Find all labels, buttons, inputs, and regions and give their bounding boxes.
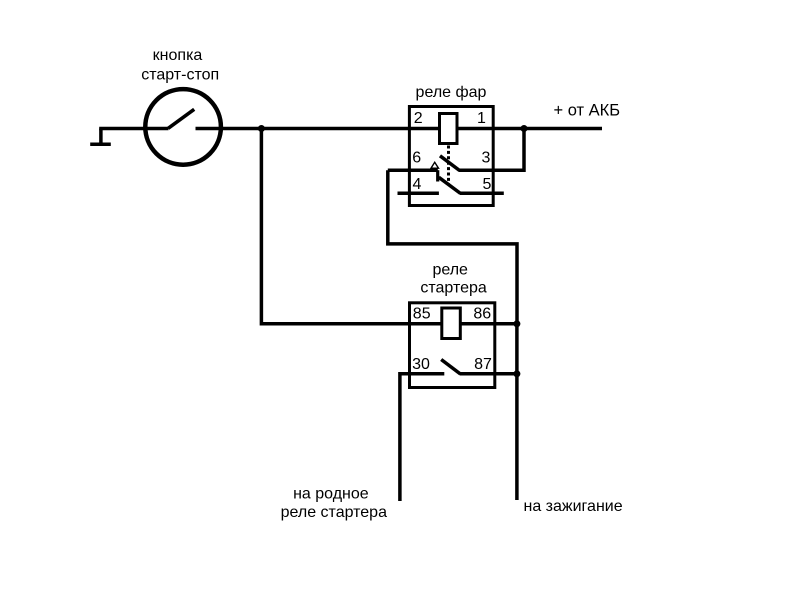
label: кнопка старт-стоп — [141, 47, 219, 83]
wire: pin87 to bus — [460, 372, 517, 376]
relay K2 coil — [442, 308, 461, 339]
node A: junction below button — [258, 125, 265, 132]
wire: pin5 stub — [460, 192, 504, 196]
svg-text:старт-стоп: старт-стоп — [141, 66, 219, 83]
wire: pin6 left lead — [388, 168, 438, 172]
svg-text:кнопка: кнопка — [153, 47, 203, 64]
wire: pin6 loop down to starter pin86 junction — [388, 170, 517, 324]
svg-text:87: 87 — [474, 356, 492, 373]
svg-text:стартера: стартера — [420, 280, 487, 297]
svg-text:реле фар: реле фар — [416, 84, 487, 101]
push-button S1 (кнопка старт-стоп) — [145, 89, 221, 165]
relay K1 (реле фар) body — [409, 107, 493, 206]
relay K1 actuator dashed link — [447, 146, 450, 185]
wire: button right contact to relay K1 pin2 / coil / +AKB — [196, 127, 603, 131]
svg-text:реле стартера: реле стартера — [281, 504, 387, 521]
wire: vertical bus pin86 to pin87 to ignition — [515, 324, 519, 500]
svg-text:85: 85 — [413, 306, 431, 323]
ground — [90, 129, 111, 145]
svg-text:на зажигание: на зажигание — [524, 498, 623, 515]
node D: junction pin87 with vertical bus — [513, 370, 520, 377]
wire: pin30 lead down to stock starter relay — [400, 374, 444, 501]
svg-text:86: 86 — [473, 306, 491, 323]
svg-text:1: 1 — [477, 110, 486, 127]
svg-text:+ от АКБ: + от АКБ — [554, 101, 621, 119]
node B: junction wire to +AKB above pin1 — [521, 125, 528, 132]
relay K1 moving contact (6-5) — [439, 177, 461, 193]
relay K1 contact stub pin6 — [436, 170, 439, 181]
svg-text:2: 2 — [414, 110, 423, 127]
relay K1 moving contact (6-3) — [440, 156, 459, 171]
relay K1 armature marker (triangle) — [431, 162, 439, 168]
wire: ground to button left contact — [99, 127, 168, 131]
svg-text:4: 4 — [412, 176, 421, 193]
wire: pin3 loop to +AKB junction — [459, 129, 524, 171]
svg-text:3: 3 — [482, 150, 491, 167]
svg-text:30: 30 — [412, 356, 430, 373]
relay K2 moving contact (30-87) — [441, 360, 460, 375]
wire: junction down to starter relay pin85 row — [261, 129, 517, 324]
svg-text:5: 5 — [483, 176, 492, 193]
relay K1 coil — [440, 114, 458, 144]
label: реле стартера — [420, 262, 487, 297]
svg-text:на родное: на родное — [293, 485, 369, 502]
svg-text:6: 6 — [412, 150, 421, 167]
label: на родное реле стартера — [281, 485, 387, 521]
svg-text:реле: реле — [432, 262, 468, 279]
wire: pin4 stub — [398, 192, 439, 196]
node C: junction pin86 with vertical bus — [513, 320, 520, 327]
relay K2 (реле стартера) body — [410, 303, 495, 388]
